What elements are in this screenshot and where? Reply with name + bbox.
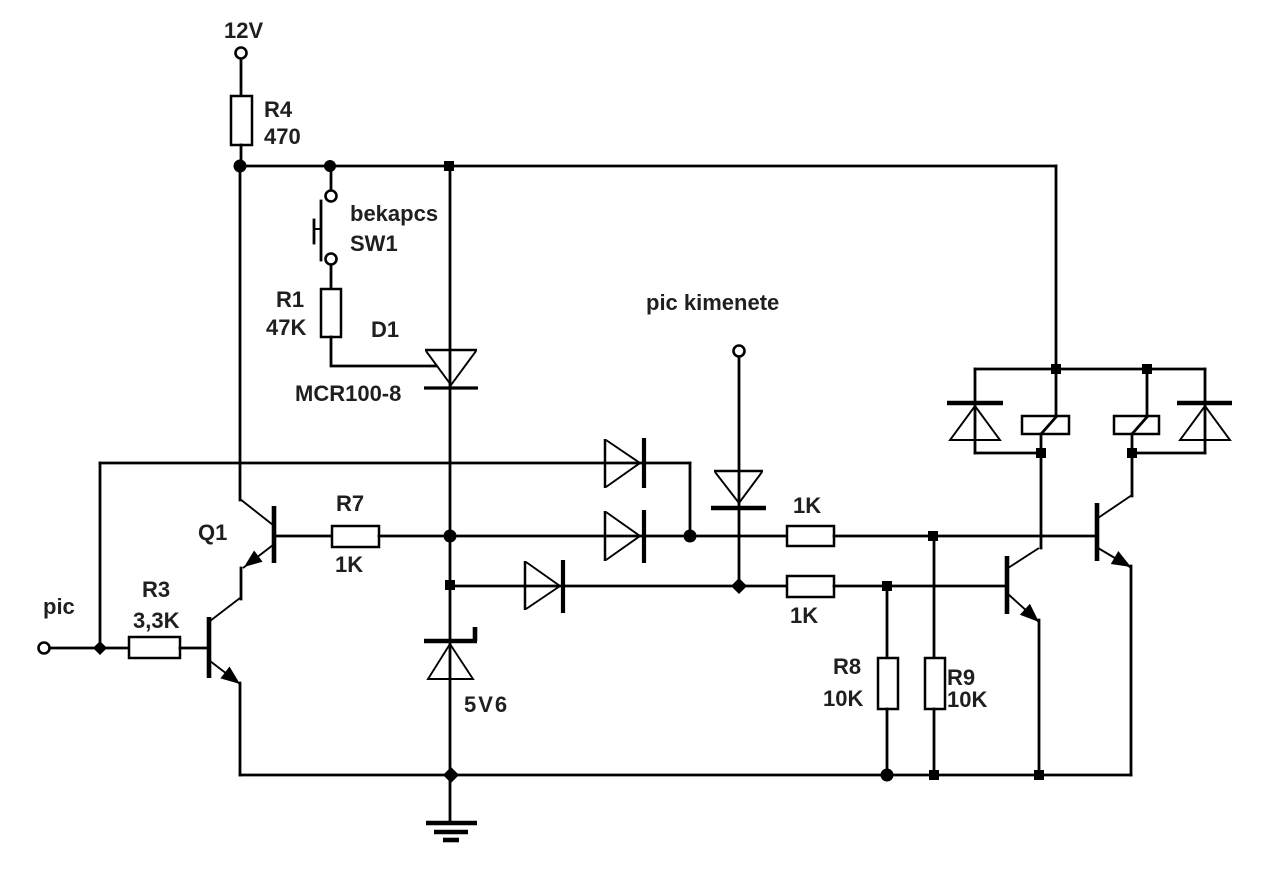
wire diode D5 out to 1K bbox=[450, 585, 787, 588]
resistor R9 label bbox=[947, 665, 987, 712]
node junction dot x887 y775 bbox=[881, 769, 894, 782]
diode D4 vertical bbox=[711, 471, 766, 508]
node junction square x1132 y453 bbox=[1127, 448, 1137, 458]
wire relay2 coil bottom bbox=[1131, 434, 1134, 496]
svg-text:R7: R7 bbox=[336, 491, 364, 516]
node junction diamond x451 y775 bbox=[443, 767, 459, 783]
svg-text:R1: R1 bbox=[276, 287, 304, 312]
node junction square at SCR rail bbox=[444, 161, 454, 171]
node junction square x887 y586 bbox=[882, 581, 892, 591]
wire top rail bbox=[239, 165, 1056, 168]
wire Q1 base to R7 bbox=[276, 535, 332, 538]
svg-text:1K: 1K bbox=[790, 603, 818, 628]
resistor 1K lower (y586) bbox=[787, 576, 834, 597]
node junction square x1147 y369 bbox=[1142, 364, 1152, 374]
svg-text:1K: 1K bbox=[335, 552, 363, 577]
wire 12V to R4 bbox=[240, 59, 243, 96]
resistor R1 bbox=[321, 289, 341, 337]
node junction dot at R4/rail bbox=[234, 160, 247, 173]
wire relay1 coil bottom bbox=[1040, 434, 1043, 548]
switch SW1 pushbutton bbox=[314, 201, 321, 260]
wire pic terminal to R3 bbox=[50, 647, 129, 650]
resistor R9 bbox=[925, 658, 945, 709]
resistor R4 bbox=[231, 96, 252, 145]
svg-text:pic: pic bbox=[43, 594, 75, 619]
wire left rail down to Q1 collector bbox=[239, 166, 242, 500]
wire left vertical pic branch bbox=[99, 463, 102, 648]
wire diode D2 out bbox=[689, 463, 692, 536]
wire center rail lower bbox=[449, 641, 452, 823]
resistor 1K lower label bbox=[790, 603, 818, 628]
wire 1K lower to T2 base bbox=[834, 585, 1007, 588]
switch SW1 label bbox=[350, 201, 438, 256]
resistor R7 bbox=[332, 526, 379, 547]
resistor 1K upper (y536) bbox=[787, 526, 834, 546]
ground bbox=[426, 823, 477, 840]
resistor R7 label bbox=[335, 491, 364, 577]
svg-text:R3: R3 bbox=[142, 577, 170, 602]
resistor R8 label bbox=[823, 654, 863, 711]
wire R9 to bottom rail bbox=[933, 709, 936, 775]
resistor R3 label bbox=[133, 577, 180, 633]
wire bottom rail bbox=[240, 774, 1131, 777]
wire relay1 bottom-left bus bbox=[975, 452, 1041, 455]
wire Q2 emitter down bbox=[239, 683, 242, 775]
wire diode D3 out to 1K bbox=[450, 535, 787, 538]
wire relay2 coil top bbox=[1146, 369, 1149, 416]
svg-text:D1: D1 bbox=[371, 317, 399, 342]
diode D3 middle bbox=[605, 510, 644, 563]
relay K1 coil bbox=[1022, 416, 1069, 434]
resistor R1 label bbox=[266, 287, 306, 340]
terminal pic kimenete bbox=[734, 346, 745, 357]
node junction dot center rail y536 bbox=[444, 530, 457, 543]
wire R4 to top rail bbox=[240, 145, 243, 166]
node junction diamond x100 bbox=[93, 641, 107, 655]
node 12V label bbox=[224, 18, 263, 43]
node junction square x1039 y775 bbox=[1034, 770, 1044, 780]
svg-text:SW1: SW1 bbox=[350, 231, 398, 256]
wire R7 to center rail bbox=[379, 535, 450, 538]
relay K2 coil bbox=[1114, 416, 1159, 434]
wire rail to SW1 bbox=[330, 166, 333, 191]
svg-text:Q1: Q1 bbox=[198, 520, 227, 545]
thyristor D1 MCR100-8 bbox=[424, 350, 478, 388]
wire left flyback branch bbox=[974, 369, 977, 453]
node junction square x1056 y369 bbox=[1051, 364, 1061, 374]
wire R1 to SCR gate bbox=[331, 337, 436, 366]
wire T2 emitter down bbox=[1038, 620, 1041, 775]
svg-text:R4: R4 bbox=[264, 97, 293, 122]
node junction dot y536 x690 bbox=[684, 530, 697, 543]
wire R9 branch upper bbox=[933, 536, 936, 658]
transistor Q1 bbox=[240, 499, 274, 568]
wire Q1 emitter to Q2 collector bbox=[240, 568, 243, 599]
thyristor D1 label bbox=[295, 317, 401, 406]
svg-text:bekapcs: bekapcs bbox=[350, 201, 438, 226]
resistor R4 value label bbox=[264, 97, 301, 149]
zener diode 5V6 bbox=[424, 627, 477, 679]
wire relay top bus bbox=[975, 368, 1205, 371]
resistor R3 bbox=[129, 637, 180, 658]
svg-text:12V: 12V bbox=[224, 18, 263, 43]
node junction square x933 y536 bbox=[928, 531, 938, 541]
svg-text:5V6: 5V6 bbox=[464, 692, 509, 717]
transistor T3 bbox=[1097, 495, 1132, 567]
wire pic kimenete to diode bbox=[738, 357, 741, 586]
svg-text:1K: 1K bbox=[793, 493, 821, 518]
wire SW1 to R1 bbox=[330, 265, 333, 289]
node junction dot at SW1 branch bbox=[324, 160, 336, 172]
svg-text:10K: 10K bbox=[947, 687, 987, 712]
svg-text:10K: 10K bbox=[823, 686, 863, 711]
svg-text:MCR100-8: MCR100-8 bbox=[295, 381, 401, 406]
wire 1K upper to T3 base bbox=[834, 535, 1097, 538]
diode D5 lower bbox=[525, 560, 563, 613]
wire R8 to bottom rail bbox=[886, 709, 889, 775]
transistor Q2 bbox=[209, 598, 240, 684]
diode D7 flyback right bbox=[1177, 403, 1232, 440]
node pic label bbox=[43, 594, 75, 619]
wire relay2 bottom-right bus bbox=[1132, 452, 1205, 455]
diode D2 upper bbox=[605, 438, 644, 488]
switch SW1 top terminal bbox=[326, 191, 337, 202]
terminal 12V bbox=[236, 48, 247, 59]
terminal pic bbox=[39, 643, 50, 654]
diode D6 flyback left bbox=[947, 403, 1003, 440]
wire relay1 coil top bbox=[1055, 369, 1058, 416]
wire T3 emitter down bbox=[1130, 566, 1133, 775]
svg-text:R8: R8 bbox=[833, 654, 861, 679]
node junction square x934 y775 bbox=[929, 770, 939, 780]
resistor 1K upper label bbox=[793, 493, 821, 518]
svg-text:pic kimenete: pic kimenete bbox=[646, 290, 779, 315]
svg-text:3,3K: 3,3K bbox=[133, 608, 180, 633]
transistor T2 bbox=[1007, 548, 1039, 622]
wire R8 branch upper bbox=[886, 586, 889, 658]
wire R3 to Q2 base bbox=[180, 647, 209, 650]
wire center rail upper bbox=[449, 166, 452, 641]
svg-text:47K: 47K bbox=[266, 315, 306, 340]
wire upper branch y462 bbox=[100, 462, 690, 465]
zener 5V6 label bbox=[464, 692, 509, 717]
wire right flyback branch bbox=[1204, 369, 1207, 453]
transistor Q1 label bbox=[198, 520, 227, 545]
svg-text:470: 470 bbox=[264, 124, 301, 149]
resistor R8 bbox=[878, 658, 898, 709]
node junction diamond x739 y586 bbox=[731, 578, 747, 594]
node junction square center rail y585 bbox=[445, 580, 455, 590]
switch SW1 bottom terminal bbox=[326, 254, 337, 265]
node pic kimenete label bbox=[646, 290, 779, 315]
node junction square x1041 y453 bbox=[1036, 448, 1046, 458]
wire top rail to relay network bbox=[1055, 166, 1058, 369]
